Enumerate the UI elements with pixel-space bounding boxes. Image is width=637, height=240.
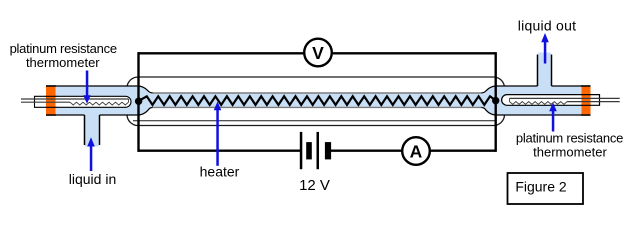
svg-text:Figure 2: Figure 2 (515, 179, 567, 195)
right thermometer coil end join (509, 98, 511, 101)
svg-text:platinum resistance: platinum resistance (10, 41, 117, 56)
arrow: right thermometer pointer (549, 103, 557, 132)
jacket inner shading line (133, 120, 496, 122)
left thermometer platinum coil (70, 102, 129, 105)
liquid in branch tube fill (85, 110, 99, 147)
heater element zigzag (139, 96, 496, 105)
node: right heater terminal (492, 97, 499, 104)
right rubber bung (582, 86, 591, 116)
right arm outline bottom (481, 107, 591, 115)
battery 12V (300, 132, 331, 169)
wire: top conductor left of voltmeter (139, 52, 304, 54)
svg-text:heater: heater (200, 164, 240, 180)
left thermometer sheath (35, 96, 132, 107)
ammeter A (402, 137, 430, 165)
svg-text:platinum resistance: platinum resistance (516, 130, 623, 145)
svg-text:liquid out: liquid out (518, 17, 577, 33)
left arm outline bottom (46, 107, 154, 115)
left thermometer bottom lead (21, 101, 70, 103)
right thermometer top lead (510, 97, 620, 99)
figure caption box (508, 173, 584, 204)
svg-text:V: V (312, 43, 324, 63)
outer glass jacket tube (127, 77, 505, 126)
right thermometer sheath (502, 95, 600, 106)
tube edges across right bung (581, 86, 591, 115)
liquid in branch walls (85, 115, 100, 145)
right arm tube (blue) (481, 86, 591, 115)
wire: bottom conductor left of battery (139, 149, 301, 151)
svg-text:thermometer: thermometer (533, 144, 607, 159)
wire: top conductor right of voltmeter (333, 52, 496, 54)
wire: right vertical conductor (495, 52, 497, 152)
left thermometer top lead (21, 98, 129, 100)
wire: left vertical conductor (137, 52, 139, 152)
svg-text:12 V: 12 V (299, 177, 330, 194)
tube edges across left bung (46, 86, 56, 115)
wire: ammeter to right conductor (430, 149, 496, 151)
left arm outline top (46, 86, 154, 93)
water channel bottom wall (153, 106, 482, 108)
svg-text:liquid in: liquid in (69, 171, 116, 187)
left arm tube (blue) (46, 86, 154, 115)
wire: battery to ammeter (331, 149, 402, 151)
node: left heater terminal (135, 98, 142, 105)
svg-text:A: A (410, 141, 423, 161)
arrow: left thermometer pointer (83, 71, 91, 104)
liquid out branch walls (538, 55, 552, 87)
right thermometer bottom lead (567, 101, 620, 103)
arrow: liquid in pointer (87, 137, 95, 171)
sheath edges across right bung (581, 95, 591, 106)
right arm outline top (481, 86, 591, 93)
arrow: heater pointer (214, 102, 222, 166)
right thermometer platinum coil (510, 102, 568, 105)
left thermometer coil end join (128, 99, 130, 102)
svg-text:thermometer: thermometer (26, 55, 100, 70)
liquid out branch tube fill (538, 53, 551, 103)
sheath edges across left bung (46, 96, 57, 107)
water channel top wall (153, 92, 482, 94)
water channel fill (150, 93, 483, 107)
arrow: liquid out pointer (541, 33, 549, 64)
left rubber bung (46, 86, 56, 116)
voltmeter V (304, 39, 332, 67)
